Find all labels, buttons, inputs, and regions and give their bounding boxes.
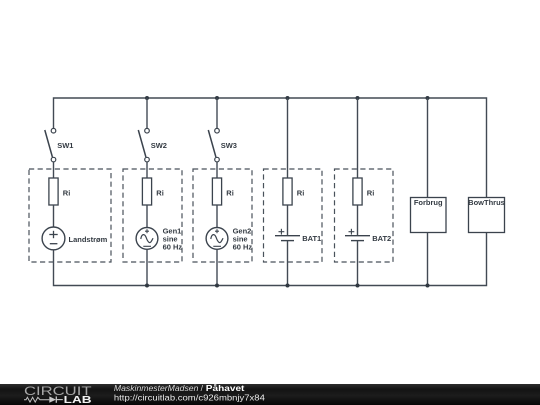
switch SW3 [208,128,237,162]
wire SW3 to resistor [216,162,218,178]
svg-text:Landstrøm: Landstrøm [69,235,108,244]
svg-text:LAB: LAB [64,395,92,405]
junction top bus branch3 [215,96,219,100]
wire branch5 top drop [357,98,359,178]
svg-text:Ri: Ri [297,188,305,197]
svg-text:Ri: Ri [226,188,234,197]
dashed box Landstrom group [29,169,111,262]
junction bottom bus branch6 [426,284,430,288]
junction bottom bus branch4 [286,284,290,288]
wire SW2 to resistor [146,162,148,178]
junction top bus branch4 [286,96,290,100]
svg-text:Ri: Ri [156,188,164,197]
svg-text:Ri: Ri [63,188,71,197]
wire resistor to battery (branch4) [287,205,289,235]
svg-text:Ri: Ri [367,188,375,197]
wire resistor to battery (branch5) [357,205,359,235]
switch SW2 [138,128,167,162]
wire branch6 bottom drop [427,233,429,286]
wire top bus with end drops [54,98,487,198]
resistor Ri (branch5) [353,178,374,205]
resistor Ri (branch3) [212,178,233,205]
wire battery to bottom bus (branch5) [357,241,359,286]
svg-text:Forbrug: Forbrug [414,198,443,207]
junction bottom bus branch5 [356,284,360,288]
logo diode [49,396,56,402]
junction bottom bus branch3 [215,284,219,288]
junction top bus branch6 [426,96,430,100]
wire SW1 to resistor [53,162,55,178]
wire bottom bus with end drops [54,233,487,286]
svg-text:MaskinmesterMadsen: MaskinmesterMadsen [114,383,199,393]
svg-text:60 Hz: 60 Hz [163,243,183,252]
svg-text:60 Hz: 60 Hz [233,243,253,252]
junction top bus branch5 [356,96,360,100]
ac source Gen1 sine 60 Hz [136,227,182,252]
svg-text:SW2: SW2 [151,141,167,150]
dashed box BAT2 group [335,169,394,262]
load box BowThrus [468,198,505,233]
svg-text:BAT2: BAT2 [372,234,391,243]
wire battery to bottom bus (branch4) [287,241,289,286]
footer bar [0,384,540,405]
svg-text:BowThrus: BowThrus [468,198,505,207]
battery BAT1 [275,229,321,243]
wire branch3 top drop [216,98,218,128]
dashed box Gen2 group [193,169,252,262]
logo resistor zigzag [24,397,49,402]
dashed box BAT1 group [264,169,323,262]
resistor Ri (branch1) [49,178,70,205]
wire resistor to source (branch2) [146,205,148,228]
svg-text:SW3: SW3 [221,141,237,150]
resistor Ri (branch2) [142,178,163,205]
wire branch2 top drop [146,98,148,128]
load box Forbrug [411,198,447,233]
voltage source V1 Landstrom [42,227,107,250]
svg-text:SW1: SW1 [57,141,73,150]
wire resistor to source (branch1) [53,205,55,227]
battery BAT2 [345,229,391,243]
junction top bus branch2 [145,96,149,100]
dashed box Gen1 group [123,169,182,262]
ac source Gen2 sine 60 Hz [206,227,252,252]
wire resistor to source (branch3) [216,205,218,228]
wire source to bottom bus (branch2) [146,249,148,285]
wire branch4 top drop [287,98,289,178]
wire branch6 top drop [427,98,429,198]
resistor Ri (branch4) [283,178,304,205]
svg-text:BAT1: BAT1 [302,234,321,243]
svg-text:Påhavet: Påhavet [206,383,245,393]
wire source to bottom bus (branch3) [216,249,218,285]
junction bottom bus branch2 [145,284,149,288]
svg-text:http://circuitlab.com/c926mbnj: http://circuitlab.com/c926mbnjy7x84 [114,393,265,403]
switch SW1 [45,128,74,162]
